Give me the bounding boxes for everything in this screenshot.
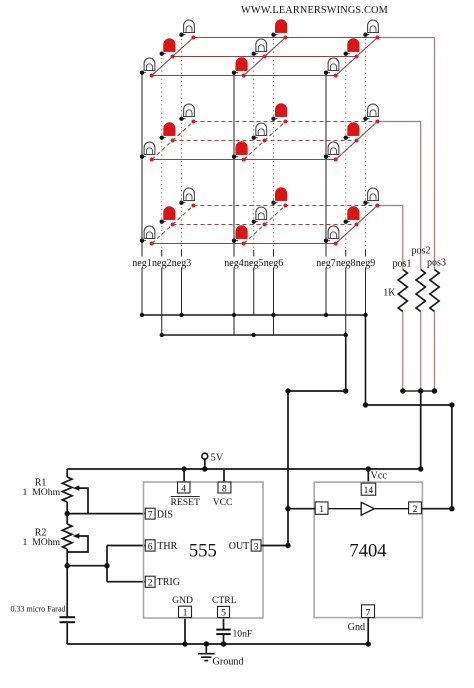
- wire neg9 extension down to 7404-out bus: [365, 315, 367, 405]
- label neg4: [224, 257, 245, 268]
- LED layer2 front col3 (white): [326, 156, 330, 158]
- wire pin2 to riser: [421, 508, 452, 510]
- wire even-neg bus: [162, 334, 346, 336]
- node rail/resistor junction: [418, 466, 423, 471]
- node riser/pin1 junction: [285, 506, 290, 511]
- svg-text:1 MOhm: 1 MOhm: [23, 487, 61, 498]
- node neg1 on odd bus: [140, 313, 144, 317]
- node inverter-bus left: [363, 402, 368, 407]
- svg-text:8: 8: [222, 483, 227, 494]
- LED layer1 back col2 (red): [274, 34, 278, 36]
- pin 1 GND: [179, 606, 192, 617]
- pin 2 TRIG: [145, 576, 155, 587]
- wire layer1 front row: [152, 75, 336, 77]
- svg-text:Ground: Ground: [213, 657, 244, 668]
- label neg3: [171, 257, 192, 268]
- wire DIS: [67, 513, 145, 515]
- node neg9 on odd bus: [363, 313, 367, 317]
- svg-text:7: 7: [366, 608, 371, 619]
- wire layer2 diagonal 3: [336, 122, 378, 160]
- wire neg9 column (solid below cube): [365, 250, 367, 315]
- svg-text:neg6: neg6: [264, 258, 283, 269]
- wire OUT to riser: [261, 545, 288, 547]
- LED layer2 mid col1 (red): [162, 137, 166, 139]
- pin 1 7404 input: [315, 502, 328, 514]
- wire layer1 diagonal 2: [244, 38, 286, 76]
- node out-bus left: [285, 388, 290, 393]
- node neg4 on odd bus: [232, 313, 236, 317]
- node resistor bottom: [432, 388, 437, 393]
- LED layer3 front col2 (red): [234, 240, 238, 242]
- LED layer3 front col3 (white): [326, 240, 330, 242]
- wire neg8 column (dotted inside cube): [345, 54, 347, 250]
- label neg5: [243, 257, 264, 268]
- svg-text:pos1: pos1: [393, 259, 412, 270]
- svg-text:1: 1: [183, 608, 188, 619]
- pin 8 VCC: [218, 482, 231, 493]
- wire neg5 column (dotted inside cube): [253, 54, 255, 250]
- wire rail to pin4: [183, 469, 185, 482]
- svg-text:0.33 micro Farad: 0.33 micro Farad: [11, 605, 66, 614]
- LED layer3 mid col2 (white): [254, 221, 258, 223]
- label neg7: [316, 257, 337, 268]
- wire resistor-bottom bus: [403, 390, 435, 392]
- node 5V on rail: [202, 466, 207, 471]
- wire neg4 column (solid): [233, 73, 235, 335]
- wire rail to pin8: [223, 469, 225, 482]
- pin 7 DIS: [145, 508, 155, 519]
- label neg1: [132, 257, 153, 268]
- pin 6 THR: [145, 540, 155, 551]
- wire neg7 column (solid): [325, 73, 327, 315]
- LED layer1 back col3 (white): [366, 34, 370, 36]
- svg-text:neg7: neg7: [316, 258, 335, 269]
- resistor R pos2 1K: [416, 270, 425, 312]
- label neg6: [263, 257, 284, 268]
- svg-text:pos3: pos3: [427, 258, 446, 269]
- label neg8: [335, 257, 356, 268]
- wire pin1 to inverter gate: [328, 508, 361, 510]
- node R2/C junction: [65, 563, 70, 568]
- LED layer2 back col1 (white): [182, 118, 186, 120]
- svg-text:neg8: neg8: [336, 258, 355, 269]
- svg-text:neg3: neg3: [172, 258, 191, 269]
- LED layer2 mid col2 (white): [254, 137, 258, 139]
- wire 555 pin1 to ground: [184, 617, 186, 644]
- terminal 5V: [202, 453, 208, 459]
- node neg2 on even bus: [160, 333, 164, 337]
- node neg3 on odd bus: [179, 313, 183, 317]
- wire THR/TRIG vertical: [106, 546, 108, 582]
- wire R1-R2 link: [66, 514, 68, 524]
- svg-text:neg1: neg1: [132, 258, 151, 269]
- node THR/TRIG tie: [104, 563, 109, 568]
- LED layer3 back col2 (red): [274, 202, 278, 204]
- wire R pos2 1K bottom lead: [420, 312, 422, 392]
- LED layer2 front col1 (white): [142, 156, 146, 158]
- svg-text:OUT: OUT: [229, 541, 250, 552]
- wiper R2 arrow: [73, 533, 80, 538]
- node neg6 on odd bus: [271, 313, 275, 317]
- svg-text:neg9: neg9: [356, 258, 375, 269]
- svg-text:6: 6: [148, 541, 153, 552]
- ground: [204, 641, 209, 646]
- wiper R1 arrow: [73, 485, 80, 490]
- wire layer1 middle row: [173, 56, 357, 58]
- wire neg5 column (solid below cube): [253, 250, 255, 315]
- pin 14 Vcc: [361, 483, 376, 495]
- wire neg3 column (dotted inside cube): [181, 35, 183, 250]
- wire rail left corner down: [66, 469, 68, 477]
- svg-text:neg5: neg5: [244, 258, 263, 269]
- wire neg9 column (dotted inside cube): [365, 35, 367, 250]
- svg-text:555: 555: [189, 541, 217, 562]
- LED layer3 back col1 (white): [182, 202, 186, 204]
- node 10nF ground: [221, 641, 226, 646]
- LED layer1 back col1 (white): [182, 34, 186, 36]
- wire R pos3 1K bottom lead: [434, 312, 436, 392]
- wire layer3 middle row: [173, 224, 357, 226]
- wire neg1 column (solid): [141, 73, 143, 315]
- label RESET: [171, 495, 200, 497]
- wire layer3 diagonal 1: [152, 206, 194, 244]
- LED layer1 front col1 (white): [142, 72, 146, 74]
- label neg9: [355, 257, 376, 268]
- wire layer1 diagonal 3: [336, 38, 378, 76]
- LED layer2 back col3 (white): [366, 118, 370, 120]
- LED layer2 front col2 (red): [234, 156, 238, 158]
- wire neg8 column (solid below cube): [345, 250, 347, 335]
- svg-text:3: 3: [254, 541, 259, 552]
- wire layer2 back row: [193, 121, 377, 123]
- node inverter-bus right: [449, 402, 454, 407]
- svg-text:10nF: 10nF: [233, 629, 253, 640]
- inverter gate triangle: [361, 502, 374, 515]
- wire pos3 from top layer to resistor: [377, 38, 434, 270]
- svg-text:Gnd: Gnd: [348, 622, 366, 633]
- node R1/R2 junction: [65, 511, 70, 516]
- svg-text:THR: THR: [157, 541, 177, 552]
- node resistor bottom: [400, 388, 405, 393]
- LED layer1 mid col2 (white): [254, 53, 258, 55]
- wire layer2 diagonal 2: [244, 122, 286, 160]
- resistor R pos1 1K: [398, 270, 407, 312]
- wire neg2 column (dotted inside cube): [161, 54, 163, 250]
- LED layer1 front col3 (white): [326, 72, 330, 74]
- LED layer1 mid col1 (red): [162, 53, 166, 55]
- wire layer1 diagonal 1: [152, 38, 194, 76]
- pin 4 RESET: [178, 482, 191, 493]
- wire ground rail: [67, 643, 368, 645]
- wire neg3 column (solid below cube): [181, 250, 183, 315]
- node neg8 on even bus: [344, 333, 348, 337]
- wire THR: [107, 545, 145, 547]
- wire layer3 front row: [152, 243, 336, 245]
- op-amp U1 555 body: [144, 482, 264, 618]
- LED layer3 mid col3 (red): [346, 221, 350, 223]
- wire to C1: [66, 566, 68, 617]
- wire 7404 output riser: [451, 405, 453, 509]
- pin 3 OUT: [251, 540, 261, 551]
- svg-text:2: 2: [413, 504, 418, 515]
- LED layer2 mid col3 (red): [346, 137, 350, 139]
- wire layer3 back row: [193, 205, 377, 207]
- svg-text:1 MOhm: 1 MOhm: [23, 537, 61, 548]
- node pin1 ground: [182, 641, 187, 646]
- capacitor C2 10nF: [216, 629, 230, 631]
- pin 7 7404 Gnd: [362, 605, 375, 618]
- LED layer3 back col3 (white): [366, 202, 370, 204]
- wire neg8 extension down to 555-out bus: [345, 335, 347, 391]
- resistor R pos3 1K: [430, 270, 439, 312]
- svg-text:5: 5: [221, 608, 226, 619]
- node neg7 on odd bus: [324, 313, 328, 317]
- node pin4 drop: [181, 466, 186, 471]
- wire TRIG: [107, 581, 145, 583]
- pin 2 7404 output: [409, 502, 422, 514]
- wire 555-out bus: [288, 390, 346, 392]
- wire C1 to ground rail: [66, 622, 68, 644]
- wire 5V rail: [67, 468, 421, 470]
- wire neg6 column (solid below cube): [273, 250, 275, 335]
- svg-text:WWW.LEARNERSWINGS.COM: WWW.LEARNERSWINGS.COM: [241, 5, 388, 16]
- node resistor bottom: [418, 388, 423, 393]
- LED layer3 front col1 (white): [142, 240, 146, 242]
- node 7404 ground: [366, 641, 371, 646]
- svg-text:neg4: neg4: [224, 258, 243, 269]
- svg-text:5V: 5V: [211, 453, 224, 464]
- pin 5 CTRL: [218, 606, 230, 617]
- node out-bus right: [343, 388, 348, 393]
- svg-text:RESET: RESET: [171, 497, 200, 508]
- svg-text:1: 1: [319, 504, 324, 515]
- wire layer3 diagonal 2: [244, 206, 286, 244]
- wire 10nF to ground: [223, 634, 225, 644]
- wire layer1 back row: [193, 37, 377, 39]
- svg-text:neg2: neg2: [152, 258, 171, 269]
- svg-text:7404: 7404: [349, 541, 386, 562]
- wire neg2 column (solid below cube): [161, 250, 163, 335]
- svg-text:DIS: DIS: [157, 509, 173, 520]
- resistor R2 1 MOhm: [62, 524, 72, 549]
- wire layer2 middle row: [173, 140, 357, 142]
- label neg2: [151, 257, 172, 268]
- inverter U2 7404 body: [314, 482, 422, 617]
- wire layer3 diagonal 3: [336, 206, 378, 244]
- node pin2 riser corner: [449, 506, 454, 511]
- wire resistor bus down to 5V rail: [420, 391, 422, 469]
- svg-text:14: 14: [364, 485, 374, 496]
- wire layer2 front row: [152, 159, 336, 161]
- resistor R1 1 MOhm: [62, 477, 72, 502]
- svg-text:GND: GND: [172, 595, 193, 606]
- svg-text:Vcc: Vcc: [371, 470, 388, 481]
- LED layer1 front col2 (red): [234, 72, 238, 74]
- LED layer1 mid col3 (red): [346, 53, 350, 55]
- LED layer3 mid col1 (red): [162, 221, 166, 223]
- wire layer2 diagonal 1: [152, 122, 194, 160]
- svg-text:pos2: pos2: [412, 246, 431, 257]
- node OUT junction: [285, 543, 290, 548]
- wire pos2 from middle layer to resistor: [377, 122, 420, 270]
- wire R1 bottom lead: [66, 502, 68, 514]
- wire odd-neg bus: [142, 314, 366, 316]
- wire junction to THR/TRIG: [67, 565, 107, 567]
- svg-text:7: 7: [148, 509, 153, 520]
- svg-text:CTRL: CTRL: [212, 595, 237, 606]
- wire gate to pin2: [374, 508, 408, 510]
- wire R pos1 1K bottom lead: [402, 312, 404, 392]
- svg-text:4: 4: [181, 483, 186, 494]
- wire 555OUT to 7404 pin1: [288, 508, 315, 510]
- svg-text:TRIG: TRIG: [157, 577, 180, 588]
- wire 7404 pin7 to ground: [367, 618, 369, 644]
- wire 5V stub: [204, 459, 206, 469]
- LED layer2 back col2 (red): [274, 118, 278, 120]
- wire 555 OUT riser: [287, 391, 289, 546]
- wire neg6 column (dotted inside cube): [273, 35, 275, 250]
- svg-text:2: 2: [148, 578, 153, 589]
- svg-text:1K: 1K: [383, 288, 396, 299]
- wire R2 bottom lead: [66, 549, 68, 566]
- wire 555 pin5 to 10nF: [223, 618, 225, 630]
- wire 7404-out bus: [366, 404, 452, 406]
- node neg5 on even bus: [252, 333, 256, 337]
- wire rail to 7404 Vcc: [367, 469, 369, 483]
- svg-text:VCC: VCC: [213, 497, 233, 508]
- wire pos1 from bottom layer to resistor: [377, 206, 402, 270]
- capacitor C1 0.33uF: [60, 616, 76, 618]
- node 7404 Vcc drop: [366, 466, 371, 471]
